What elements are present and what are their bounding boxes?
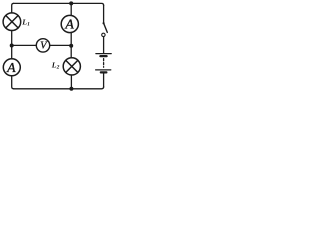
lamp L2 [63,58,80,75]
lamp L1 [3,13,21,31]
svg-text:A: A [64,17,74,32]
battery cell 1 short plate [100,55,106,57]
node junction top middle [69,1,73,5]
wire bottom horizontal [14,87,104,89]
battery cell 1 long plate [96,53,111,55]
wire top horizontal [14,3,104,5]
battery dashed link [103,59,105,68]
wire switch to battery [103,37,105,54]
wire ammeter to junction to L2 [70,33,72,58]
wire battery to bottom corner [103,74,105,88]
node junction center [69,44,73,48]
svg-text:L2: L2 [51,60,60,70]
switch lever [104,23,108,32]
voltmeter V [36,39,49,52]
battery cell 2 long plate [96,69,111,71]
svg-text:V: V [40,40,48,51]
wire L2 to bottom [70,75,72,89]
battery cell 2 short plate [101,71,107,73]
ammeter A top [61,15,78,32]
switch pivot dot [103,22,105,24]
ammeter A left [3,59,20,76]
svg-text:L1: L1 [21,17,30,27]
wire left vertical L1 to A [11,31,13,59]
wire right vertical top (corner to switch) [103,5,105,23]
switch terminal circle [102,33,105,36]
wire V branch left [12,44,37,46]
wire top-left corner down to L1 [12,3,14,13]
wire left vertical A to bottom corner [12,76,14,89]
node junction left middle [10,44,14,48]
wire V branch right [50,44,71,46]
node junction bottom middle [69,87,73,91]
wire middle branch top (dot to ammeter) [70,3,72,15]
svg-text:A: A [6,60,16,75]
